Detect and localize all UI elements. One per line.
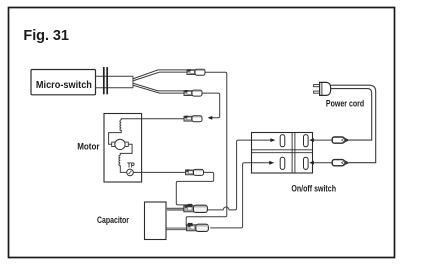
wire fan upper pair to connector CN1	[134, 70, 189, 81]
svg-text:Capacitor: Capacitor	[97, 215, 129, 225]
switch slot top-left	[280, 135, 285, 147]
CN6 crimp blob for incoming wire	[188, 223, 193, 226]
capacitor top lead (thick) to CN5	[166, 208, 185, 211]
arrow into switch top-left slot	[270, 138, 275, 142]
power connector PC1 (top)	[332, 137, 349, 143]
field coil L2 wire from right brush down to TP	[119, 144, 132, 172]
svg-text:Motor: Motor	[77, 142, 100, 152]
wire switch bottom-right to power connector PC2	[313, 162, 332, 164]
wire CN5 right with hop over vertical, up to switch top-left arrow	[208, 140, 271, 210]
arrow into CN3	[208, 116, 213, 120]
svg-text:Fig. 31: Fig. 31	[23, 28, 69, 44]
svg-text:TP: TP	[127, 163, 135, 170]
power cord inner conductor to PC1	[331, 89, 372, 141]
motor M1 box	[104, 114, 142, 183]
motor top wire to connector CN3	[142, 118, 188, 120]
connector CN2	[184, 90, 202, 96]
switch divider lines	[252, 133, 313, 174]
wire CN4 right, down, left, down to CN5 crimp	[176, 172, 213, 205]
wire cable sheath from micro-switch	[96, 76, 134, 88]
plug P1 body	[320, 82, 331, 95]
connector CN1	[187, 69, 205, 75]
connector CN3	[184, 116, 202, 122]
wire CN6 right then up to switch bottom-left arrow	[210, 163, 269, 228]
field coil L1 and wire to left brush	[109, 119, 142, 145]
arrow into switch top-right slot from power cord	[309, 138, 314, 142]
connector CN4	[186, 169, 204, 175]
arrow into switch bottom-right slot from power cord	[309, 161, 314, 165]
wire CN1 to right then down to CN6 crimp (long wire)	[186, 72, 227, 226]
left brush	[112, 142, 115, 146]
wire fan lower pair to connector CN2	[134, 83, 186, 93]
switch slot top-right	[304, 135, 309, 147]
wire CN2 right, down, arrow into CN3	[202, 93, 220, 118]
power connector PC2 (bottom)	[332, 160, 349, 166]
wire switch top-right to power connector PC1	[313, 139, 332, 141]
TP internal mark	[128, 171, 132, 174]
svg-text:Power cord: Power cord	[326, 99, 364, 109]
arrow into switch bottom-left slot	[269, 161, 274, 165]
armature circle	[115, 139, 125, 149]
switch slot bottom-right	[304, 157, 309, 169]
capacitor C1 box	[145, 202, 167, 240]
motor bottom wire to connector CN4	[133, 171, 188, 173]
plug face line	[321, 82, 323, 95]
switch slot bottom-left	[280, 157, 285, 169]
connector CN5 (large)	[184, 205, 208, 212]
right brush	[125, 142, 128, 146]
svg-text:On/off switch: On/off switch	[291, 184, 336, 194]
CN5 crimp blob for incoming wire	[188, 204, 193, 207]
svg-text:Micro-switch: Micro-switch	[36, 80, 92, 91]
on/off switch SW1 box	[252, 133, 313, 174]
plug P1 prong lower	[314, 91, 320, 93]
micro-switch S1 box	[31, 70, 96, 95]
cable clamp bars	[104, 67, 107, 94]
capacitor bottom lead (double line) to CN6	[166, 227, 188, 229]
thermal protector TP circle	[127, 169, 134, 176]
connector CN6 (large)	[187, 224, 210, 231]
plug P1 prong upper	[314, 85, 320, 87]
power cord outer conductor to PC2	[331, 85, 376, 163]
